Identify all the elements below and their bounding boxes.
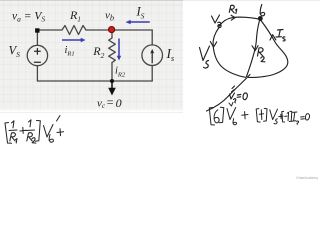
- label R2 handwritten R: [258, 48, 264, 56]
- current arrow i_R2: [118, 39, 120, 57]
- edge Va to b (R1 edge): [220, 17, 259, 26]
- ground stub: [111, 81, 113, 88]
- equals sign: [301, 117, 305, 120]
- V of V_b: [44, 125, 54, 138]
- tick marks above vc: [232, 86, 235, 92]
- handwritten graph: [200, 5, 288, 112]
- tick above V_b: [229, 102, 233, 106]
- label Va handwritten a subscript: [218, 22, 221, 26]
- bottom tail: [207, 75, 251, 112]
- s subscript: [297, 121, 299, 124]
- digit 0: [305, 114, 309, 120]
- bracket ] of [1]: [264, 108, 267, 121]
- voltage source VS circle: [27, 45, 47, 65]
- edge b to bottom (IS edge right): [249, 21, 288, 78]
- label b handwritten: [260, 5, 265, 16]
- node va circle: [218, 24, 221, 27]
- fraction bar of 1/R2: [26, 129, 35, 132]
- digit 6: [214, 110, 219, 123]
- edge Va to bottom (VS edge left): [213, 28, 245, 78]
- svg-text:va = VS: va = VS: [12, 11, 45, 24]
- plus sign: [242, 112, 248, 119]
- svg-text:=: =: [106, 95, 114, 109]
- subscript 1 of R1: [16, 139, 18, 144]
- node a square: [35, 28, 39, 32]
- wire: VS bottom to bottom rail: [36, 66, 38, 81]
- label R2 handwritten 2 subscript: [261, 57, 265, 62]
- denominator R of 1/R2: [27, 133, 33, 141]
- arrowhead on R2 edge: [252, 46, 258, 51]
- wire: IS bottom to bottom rail: [151, 66, 153, 82]
- wire top left: node a to R1: [37, 29, 62, 31]
- wire left: node a down to VS: [36, 30, 38, 45]
- label Va handwritten V: [212, 15, 220, 23]
- resistor R2: [109, 38, 116, 63]
- handwritten equation bottom right: [209, 102, 309, 125]
- handwritten 0 of vc=0: [243, 93, 247, 100]
- current arrow i_R1: [62, 39, 81, 41]
- ground junction dot: [110, 79, 114, 83]
- svg-text:IS: IS: [136, 5, 145, 21]
- arrowhead on VS edge: [210, 42, 216, 48]
- I_S top arrowhead: [126, 20, 131, 24]
- label VS handwritten S subscript: [204, 61, 209, 69]
- numerator 1 of 1/R2: [29, 120, 32, 127]
- s subscript: [274, 119, 277, 124]
- label IS handwritten I: [276, 30, 283, 38]
- b subscript: [233, 119, 237, 125]
- V of V_b: [227, 108, 236, 120]
- wire: R2 to bottom rail: [111, 63, 113, 82]
- IS internal arrowhead: [150, 49, 154, 54]
- watermark bottom right: [297, 176, 318, 180]
- i_R2 arrowhead: [117, 56, 121, 61]
- wire top right: R1 to corner: [86, 29, 152, 31]
- right bracket: [35, 121, 40, 142]
- current arrow I_S top: [131, 21, 150, 23]
- b subscript of V_b: [49, 135, 53, 143]
- svg-text:iR1: iR1: [65, 45, 75, 58]
- I of I_s: [291, 112, 296, 121]
- edge b to bottom (R2 edge): [247, 21, 260, 77]
- arrowhead on IS edge: [270, 35, 276, 40]
- IS internal arrow: [151, 52, 153, 63]
- node b red dot: [109, 27, 115, 33]
- current source IS circle: [142, 45, 163, 66]
- ground arrow triangle: [108, 88, 116, 96]
- bracket [ of [1]: [256, 109, 260, 123]
- handwritten v of vc=0: [230, 93, 235, 99]
- bracket [ of [-1]: [282, 111, 285, 122]
- wire bottom rail: [37, 80, 152, 82]
- digit 1: [287, 112, 288, 120]
- bracket [ of [6]: [209, 108, 214, 126]
- svg-text:R1: R1: [69, 8, 81, 24]
- svg-text:vc: vc: [97, 97, 106, 110]
- V of V_s: [270, 109, 278, 120]
- handwritten c subscript of vc=0: [234, 99, 236, 103]
- svg-text:R2: R2: [92, 44, 104, 60]
- tick above: [57, 116, 61, 122]
- fraction bar of 1/R1: [9, 129, 17, 132]
- handwritten equation left: [5, 116, 64, 144]
- label R1 handwritten R: [229, 5, 234, 13]
- minus sign: [285, 115, 287, 117]
- denominator R of 1/R1: [10, 133, 16, 141]
- subscript 2 of R2: [32, 138, 36, 143]
- svg-text:vb: vb: [105, 10, 114, 23]
- label VS handwritten V: [200, 46, 210, 61]
- arrowhead on R1 edge: [231, 15, 235, 20]
- node b dot: [258, 17, 262, 21]
- svg-text:0: 0: [116, 96, 122, 110]
- numerator 1 of 1/R1: [12, 121, 15, 128]
- plus sign: [279, 114, 283, 119]
- svg-text:VS: VS: [9, 43, 21, 59]
- bracket ] of [6]: [219, 107, 224, 123]
- wire right: corner down to IS: [151, 30, 153, 45]
- digit 1: [259, 110, 263, 120]
- resistor R1: [62, 26, 86, 35]
- label IS handwritten s subscript: [283, 37, 285, 41]
- bracket ] of [-1]: [289, 111, 292, 121]
- wire: node b down to R2: [111, 30, 113, 38]
- VS minus sign: [34, 61, 40, 63]
- svg-text:iR2: iR2: [115, 66, 126, 79]
- plus: [20, 127, 26, 133]
- left bracket: [5, 123, 12, 144]
- svg-text:Is: Is: [166, 46, 175, 63]
- i_R1 arrowhead: [81, 38, 86, 42]
- plus: [57, 129, 64, 136]
- handwritten equals of vc=0: [237, 95, 241, 98]
- VS plus sign: [35, 49, 41, 55]
- label R1 handwritten 1 subscript: [235, 9, 236, 13]
